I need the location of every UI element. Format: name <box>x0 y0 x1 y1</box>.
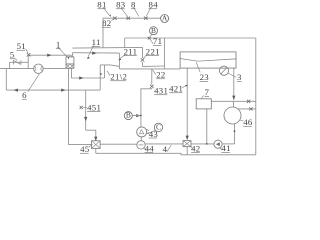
connector B bottom <box>124 112 132 120</box>
connector letters <box>126 14 168 132</box>
wire box45 bottom stub <box>95 148 97 153</box>
wire right border <box>255 38 257 155</box>
svg-text:71: 71 <box>153 36 162 46</box>
connector A <box>161 15 169 23</box>
leader 21-2 <box>107 71 110 76</box>
pump 44 <box>137 141 145 149</box>
wire 43-44 connector <box>140 137 142 141</box>
arrowhead leader C <box>147 132 149 134</box>
wire line y69 <box>119 68 180 70</box>
svg-text:42: 42 <box>191 143 200 153</box>
svg-text:B: B <box>126 111 131 120</box>
wire 431 drop from y69 line <box>151 69 153 85</box>
leader 5 <box>14 58 17 61</box>
leader 84 <box>146 8 150 16</box>
junction dot tank46 drop <box>234 130 236 132</box>
wire vertical H2 left end <box>124 38 126 48</box>
svg-text:4: 4 <box>163 144 168 154</box>
leader 46 <box>240 120 243 122</box>
wire vertical from H1 down <box>102 18 104 47</box>
connector C <box>154 123 162 131</box>
leader 6 <box>28 74 40 92</box>
wire box7 down <box>206 109 208 144</box>
wire left stub down <box>5 69 7 91</box>
leader lines <box>14 8 243 152</box>
leader 221 <box>143 55 146 58</box>
svg-text:22: 22 <box>156 70 165 80</box>
svg-text:51: 51 <box>17 41 26 51</box>
svg-text:3: 3 <box>237 72 242 82</box>
arrow down into box45 <box>94 137 97 141</box>
wire line from box7 to border <box>211 100 256 102</box>
wire pump discharge to unit1 <box>43 68 66 70</box>
arrowheads <box>14 52 236 145</box>
leader 71 <box>150 39 153 44</box>
svg-text:11: 11 <box>92 37 101 47</box>
svg-text:5: 5 <box>10 50 15 60</box>
svg-text:221: 221 <box>146 46 160 56</box>
leader C <box>149 131 156 134</box>
flow arrow on pipe C <box>92 52 96 55</box>
leader 211 <box>120 55 125 58</box>
valve x markers <box>27 17 253 111</box>
wire to box45 <box>69 144 92 146</box>
wire from B bottom connector <box>132 115 139 117</box>
wire vertical x100 <box>99 65 101 90</box>
leader 83 <box>121 8 128 17</box>
box 7 <box>196 99 211 109</box>
pump 3 <box>219 66 228 75</box>
leader 22 <box>153 70 156 75</box>
wire line y78 <box>72 68 105 78</box>
wire vertical 211 drop <box>118 53 120 69</box>
wire vertical x104 <box>104 65 106 78</box>
arrowhead leader 11 <box>87 56 90 59</box>
leader 8 <box>134 8 139 17</box>
svg-text:451: 451 <box>87 102 101 112</box>
svg-text:82: 82 <box>102 18 111 28</box>
marker on H2 for B <box>148 37 151 40</box>
wire 451 drop <box>85 90 87 130</box>
leader 43 <box>146 129 149 131</box>
valve 221 <box>141 58 145 61</box>
svg-text:45: 45 <box>80 144 90 154</box>
junction dot B line <box>140 115 142 117</box>
leader 11 <box>88 45 94 56</box>
svg-text:44: 44 <box>145 143 155 153</box>
wire vertical under vessel23 <box>233 68 235 100</box>
leader 1 <box>58 48 67 58</box>
arrowhead leader 421 <box>185 85 188 87</box>
wire bottom bus left <box>96 153 256 155</box>
svg-text:41: 41 <box>221 143 230 153</box>
wire box42 bottom stub <box>186 147 188 155</box>
wire box45 to pump44 <box>100 143 137 145</box>
wire pump suction line <box>0 68 34 70</box>
arrow right from B bottom <box>136 114 140 117</box>
valve 431 <box>150 85 154 88</box>
flow arrow on y89 mid <box>61 89 65 92</box>
leader 3 <box>228 73 237 78</box>
flow arrow on y78 <box>79 76 83 79</box>
arrow down on 451 drop <box>84 117 87 121</box>
compressor 43 <box>137 127 147 137</box>
label underlines <box>10 9 252 153</box>
svg-text:A: A <box>162 14 168 23</box>
unit 1 packed column body <box>66 57 74 69</box>
wire H2 long pipe 71 <box>125 37 256 39</box>
wire line y89 <box>6 89 100 91</box>
wire pipe C to the right <box>73 52 120 54</box>
leader 81 <box>104 8 110 16</box>
svg-text:46: 46 <box>243 117 253 127</box>
valve 84 on H1 <box>144 17 148 20</box>
valve on line y109 <box>249 107 252 110</box>
connector B top <box>150 27 158 35</box>
leader 51 <box>26 49 28 53</box>
valve 5 symbol <box>13 60 21 64</box>
wire step line 21-2 <box>100 65 119 67</box>
leader 23 <box>196 62 200 72</box>
box 42 valve <box>183 141 191 147</box>
svg-text:23: 23 <box>200 72 210 82</box>
valve 82 on H1 <box>113 17 117 20</box>
pump 6 <box>34 64 43 73</box>
wire main left vertical V1 <box>68 68 70 144</box>
arrowhead leader 81 <box>109 14 111 17</box>
leader 42 <box>190 146 193 148</box>
leader 41 <box>219 148 222 150</box>
svg-text:C: C <box>156 123 161 132</box>
arrowhead leader 1 <box>68 56 70 59</box>
svg-text:431: 431 <box>154 86 168 96</box>
wire 221 branch <box>142 47 144 58</box>
svg-text:211: 211 <box>124 46 138 56</box>
wire tank46 bottom drop <box>234 124 236 144</box>
leader 7 <box>201 95 203 98</box>
wire 421 long vertical <box>186 68 188 139</box>
marker 451 <box>80 106 83 109</box>
svg-text:6: 6 <box>22 90 27 100</box>
wire H1 top pipe 8 <box>103 17 161 19</box>
svg-text:81: 81 <box>97 0 106 10</box>
wire line y144 <box>145 143 183 145</box>
tank 46 <box>224 107 241 124</box>
valve 83 on H1 <box>127 17 131 20</box>
svg-text:7: 7 <box>205 87 210 97</box>
wire 22 drop from H2 <box>163 38 165 69</box>
leader 421 <box>182 85 186 88</box>
wire stub up from unit1 top <box>72 53 74 57</box>
arrow down on vertical 233 <box>232 96 235 100</box>
leader B top <box>149 34 151 37</box>
valve on line y101 <box>247 100 250 103</box>
svg-text:1: 1 <box>56 39 61 49</box>
flow arrow on y89 left <box>14 89 18 92</box>
svg-text:83: 83 <box>116 0 126 10</box>
leader 451 <box>83 106 87 108</box>
junction dot box7 drop <box>206 143 208 145</box>
svg-text:21\2: 21\2 <box>110 72 127 82</box>
flow arrow on pipe y55 <box>47 54 51 57</box>
svg-text:8: 8 <box>131 0 136 10</box>
wire stub to tank46 top <box>233 101 235 107</box>
leader 82 <box>111 19 114 21</box>
svg-text:421: 421 <box>169 84 183 94</box>
valve 51 <box>27 53 31 56</box>
box 45 valve <box>92 141 101 149</box>
svg-text:84: 84 <box>149 0 159 10</box>
svg-text:B: B <box>151 26 156 35</box>
leader 45 <box>89 144 93 147</box>
wire branch of valve 5 <box>10 61 29 63</box>
wire line y47 <box>72 46 142 49</box>
arrow down into box42 <box>186 136 189 140</box>
leader 44 <box>143 148 146 151</box>
junction dot x100 vertical <box>100 73 102 75</box>
leader 4 <box>167 145 171 152</box>
wire line y109 with valve <box>238 108 256 110</box>
vessel 23 <box>180 52 236 68</box>
wire vertical at x28 <box>27 55 29 68</box>
wire pipe from valve51 to unit1 <box>29 54 72 56</box>
fan 41 <box>214 140 222 148</box>
arrowhead leader 211 <box>118 58 121 60</box>
